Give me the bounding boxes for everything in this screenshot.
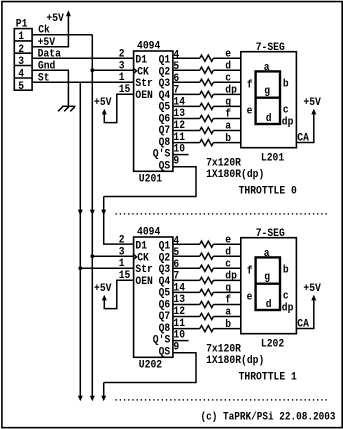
wire U201 CK stub	[92, 69, 133, 71]
svg-text:10: 10	[173, 144, 185, 156]
wire Q'S stub	[173, 154, 189, 156]
svg-text:Q'S: Q'S	[153, 335, 171, 347]
resistor R7	[200, 127, 214, 133]
svg-text:THROTTLE 1: THROTTLE 1	[239, 371, 298, 383]
svg-text:2: 2	[119, 235, 125, 247]
wire +5V from P1.2	[32, 15, 68, 47]
svg-text:5: 5	[18, 81, 24, 93]
resistor R5	[200, 103, 214, 109]
svg-text:Q6: Q6	[159, 113, 171, 125]
svg-text:U202: U202	[139, 359, 162, 371]
svg-text:c: c	[283, 290, 289, 302]
svg-text:1X180R(dp): 1X180R(dp)	[206, 355, 264, 367]
wire Gnd from P1.4	[32, 70, 68, 106]
svg-text:b: b	[225, 319, 231, 331]
wire resistor R7 to display	[213, 130, 240, 132]
svg-text:Q2: Q2	[159, 252, 171, 264]
wire Q6 to resistor	[173, 304, 200, 306]
resistor R4	[200, 277, 214, 283]
svg-text:+5V: +5V	[94, 283, 112, 295]
svg-text:12: 12	[173, 120, 185, 132]
svg-text:Q3: Q3	[159, 264, 171, 276]
resistor R8	[200, 140, 214, 146]
svg-text:11: 11	[173, 318, 185, 330]
junction U202 CK	[90, 254, 94, 258]
svg-text:4: 4	[173, 235, 179, 247]
bus arrow data mid	[101, 210, 106, 215]
svg-text:g: g	[264, 272, 270, 284]
connector P1 body	[14, 29, 32, 91]
svg-text:5: 5	[173, 247, 179, 259]
svg-text:d: d	[266, 299, 272, 311]
wire Q1 to resistor	[173, 243, 200, 245]
bus arrow Ck mid	[90, 210, 95, 215]
svg-text:dp: dp	[282, 302, 294, 314]
svg-text:a: a	[225, 307, 231, 319]
svg-text:Q2: Q2	[159, 66, 171, 78]
svg-text:+5V: +5V	[94, 97, 112, 109]
svg-text:QS: QS	[159, 346, 171, 358]
bus arrow Ck end	[90, 396, 95, 401]
svg-text:OEN: OEN	[135, 276, 153, 288]
resistor R2	[200, 67, 214, 73]
svg-text:a: a	[264, 62, 270, 74]
svg-text:13: 13	[173, 294, 185, 306]
wire OEN pull-up jog	[104, 280, 133, 308]
svg-text:4: 4	[173, 49, 179, 61]
svg-text:9: 9	[173, 341, 179, 353]
wire CA to +5V	[296, 113, 313, 143]
wire U202 Str stub	[80, 267, 133, 269]
wire Q7 to resistor	[173, 130, 200, 132]
wire resistor R2 to display	[213, 69, 240, 71]
wire resistor R3 to display	[213, 267, 240, 269]
svg-text:Q5: Q5	[159, 102, 171, 114]
wire Data from P1.3 to U201 D1	[32, 57, 134, 59]
wire Q3 to resistor	[173, 81, 200, 83]
svg-text:f: f	[225, 109, 231, 121]
svg-text:c: c	[225, 73, 231, 85]
wire resistor R1 to display	[213, 57, 240, 59]
wire resistor R8 to display	[213, 328, 240, 330]
svg-text:Q7: Q7	[159, 125, 171, 137]
wire OEN pull-up jog	[104, 94, 133, 122]
svg-text:Q8: Q8	[159, 137, 171, 149]
resistor R3	[200, 265, 214, 271]
svg-text:Q'S: Q'S	[153, 149, 171, 161]
wire resistor R8 to display	[213, 142, 240, 144]
bus arrow data end	[101, 396, 106, 401]
svg-text:OEN: OEN	[135, 90, 153, 102]
svg-text:d: d	[266, 113, 272, 125]
svg-text:e: e	[225, 48, 231, 60]
wire Q5 to resistor	[173, 105, 200, 107]
svg-text:g: g	[225, 283, 231, 295]
svg-text:Str: Str	[135, 264, 153, 276]
+5V arrow OEN	[102, 295, 107, 301]
svg-text:+5V: +5V	[303, 97, 321, 109]
wire QS cascade loop	[104, 353, 196, 383]
svg-text:d: d	[225, 246, 231, 258]
svg-text:+5V: +5V	[303, 283, 321, 295]
svg-text:U201: U201	[139, 173, 163, 185]
wire St from P1.5 to U201 Str	[32, 81, 134, 83]
svg-text:g: g	[264, 86, 270, 98]
svg-text:Q7: Q7	[159, 311, 171, 323]
svg-text:Q4: Q4	[159, 276, 171, 288]
svg-text:14: 14	[173, 97, 185, 109]
svg-text:a: a	[225, 121, 231, 133]
wire data cascade U201 QS to U202 D1	[104, 197, 134, 245]
wire Q5 to resistor	[173, 291, 200, 293]
seven segment glyph	[256, 257, 280, 310]
svg-text:7: 7	[173, 85, 179, 97]
dotted continuation line 2	[116, 399, 329, 401]
svg-text:Q8: Q8	[159, 323, 171, 335]
svg-text:9: 9	[173, 155, 179, 167]
wire Ck from P1.1	[32, 34, 92, 36]
svg-text:D1: D1	[135, 241, 147, 253]
resistor R7	[200, 313, 214, 319]
+5V arrow CA	[311, 109, 316, 115]
svg-text:Q1: Q1	[159, 55, 171, 67]
svg-text:3: 3	[119, 246, 125, 258]
seven segment glyph	[256, 71, 280, 124]
wire Q4 to resistor	[173, 279, 200, 281]
wire Q7 to resistor	[173, 316, 200, 318]
svg-text:c: c	[283, 104, 289, 116]
wire QS cascade loop	[104, 167, 196, 197]
clock marker	[134, 254, 137, 259]
wire resistor R7 to display	[213, 316, 240, 318]
wire Q8 to resistor	[173, 142, 200, 144]
svg-text:Str: Str	[135, 78, 153, 90]
wire U202 CK stub	[92, 255, 133, 257]
svg-text:10: 10	[173, 330, 185, 342]
bus arrow St end	[78, 396, 83, 401]
svg-text:CK: CK	[137, 252, 149, 264]
clock marker	[134, 68, 137, 73]
svg-text:Q1: Q1	[159, 241, 171, 253]
wire resistor R3 to display	[213, 81, 240, 83]
wire resistor R1 to display	[213, 243, 240, 245]
svg-text:dp: dp	[225, 85, 237, 97]
resistor R3	[200, 79, 214, 85]
wire Q6 to resistor	[173, 118, 200, 120]
wire Q2 to resistor	[173, 255, 200, 257]
svg-text:D1: D1	[135, 55, 147, 67]
resistor R6	[200, 301, 214, 307]
ground symbol	[58, 106, 75, 111]
resistor R6	[200, 115, 214, 121]
wire resistor R6 to display	[213, 118, 240, 120]
wire Q4 to resistor	[173, 93, 200, 95]
resistor R8	[200, 326, 214, 332]
svg-text:CK: CK	[137, 66, 149, 78]
wire resistor R4 to display	[213, 93, 240, 95]
+5V supply arrow top	[66, 10, 71, 16]
wire resistor R5 to display	[213, 291, 240, 293]
resistor R1	[200, 241, 214, 247]
svg-text:7: 7	[173, 271, 179, 283]
wire resistor R5 to display	[213, 105, 240, 107]
display body	[241, 238, 297, 334]
wire CA to +5V	[296, 299, 313, 329]
svg-text:2: 2	[119, 49, 125, 61]
wire Q2 to resistor	[173, 69, 200, 71]
svg-text:a: a	[264, 248, 270, 260]
+5V arrow CA	[311, 295, 316, 301]
svg-text:c: c	[225, 259, 231, 271]
shift register U202 body	[134, 237, 173, 357]
wire bus Ck vertical	[91, 35, 93, 398]
svg-text:d: d	[225, 60, 231, 72]
resistor R4	[200, 91, 214, 97]
resistor R1	[200, 55, 214, 61]
svg-text:Q5: Q5	[159, 288, 171, 300]
wire Q3 to resistor	[173, 267, 200, 269]
resistor R5	[200, 289, 214, 295]
svg-text:L201: L201	[261, 152, 285, 164]
svg-text:dp: dp	[282, 116, 294, 128]
svg-text:(c) TaPRK/PSi 22.08.2003: (c) TaPRK/PSi 22.08.2003	[201, 412, 336, 424]
svg-text:dp: dp	[225, 271, 237, 283]
svg-text:3: 3	[18, 56, 24, 68]
svg-text:6: 6	[173, 73, 179, 85]
resistor R2	[200, 253, 214, 259]
svg-text:14: 14	[173, 283, 185, 295]
svg-text:13: 13	[173, 108, 185, 120]
svg-text:7x120R: 7x120R	[206, 157, 241, 169]
wire bus St vertical	[79, 82, 81, 398]
wire Q1 to resistor	[173, 57, 200, 59]
wire data cascade U202 QS down	[103, 383, 105, 399]
svg-text:b: b	[225, 133, 231, 145]
wire resistor R6 to display	[213, 304, 240, 306]
svg-text:f: f	[225, 295, 231, 307]
svg-text:e: e	[247, 291, 253, 303]
svg-text:2: 2	[18, 44, 24, 56]
wire Q8 to resistor	[173, 328, 200, 330]
svg-text:1: 1	[119, 258, 125, 270]
svg-text:b: b	[283, 78, 289, 90]
svg-text:1: 1	[119, 72, 125, 84]
svg-text:e: e	[225, 234, 231, 246]
svg-text:7x120R: 7x120R	[206, 343, 241, 355]
wire Q'S stub	[173, 340, 189, 342]
svg-text:6: 6	[173, 259, 179, 271]
junction U202 Str	[78, 266, 82, 270]
svg-text:4: 4	[18, 69, 24, 81]
svg-text:THROTTLE 0: THROTTLE 0	[239, 185, 297, 197]
svg-text:f: f	[247, 265, 253, 277]
svg-text:12: 12	[173, 306, 185, 318]
display body	[241, 52, 297, 148]
dotted continuation line 1	[116, 213, 329, 215]
svg-text:QS: QS	[159, 160, 171, 172]
svg-text:3: 3	[119, 60, 125, 72]
wire resistor R2 to display	[213, 255, 240, 257]
wire resistor R4 to display	[213, 279, 240, 281]
svg-text:b: b	[283, 264, 289, 276]
bus arrow St mid	[78, 210, 83, 215]
svg-text:Q4: Q4	[159, 90, 171, 102]
+5V arrow OEN	[102, 109, 107, 115]
junction U201 CK	[90, 68, 94, 72]
svg-text:5: 5	[173, 61, 179, 73]
svg-text:Q3: Q3	[159, 78, 171, 90]
shift register U201 body	[134, 51, 173, 171]
svg-text:+5V: +5V	[46, 13, 64, 25]
svg-text:1: 1	[18, 31, 24, 43]
svg-text:1X180R(dp): 1X180R(dp)	[206, 169, 264, 181]
svg-text:L202: L202	[261, 338, 284, 350]
svg-text:f: f	[247, 79, 253, 91]
svg-text:11: 11	[173, 132, 185, 144]
svg-text:e: e	[247, 105, 253, 117]
svg-text:Q6: Q6	[159, 299, 171, 311]
svg-text:g: g	[225, 97, 231, 109]
